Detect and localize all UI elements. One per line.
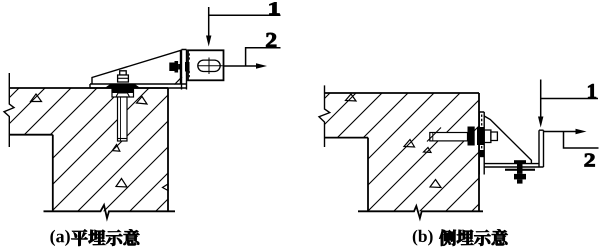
digit 1 (b) [588, 84, 596, 98]
aggregate triangles (a) [31, 94, 169, 191]
bolt at leg (b) [505, 160, 535, 183]
aggregate triangles (b) [346, 94, 442, 188]
horizontal leg (b) [484, 164, 539, 167]
concrete outline (a): right edge [167, 88, 169, 211]
anchor bolt (a): threaded rod [118, 97, 128, 141]
embedded plate (b) black [468, 127, 475, 146]
concrete outline (b): top surface [325, 92, 480, 94]
concrete outline (b): bottom edge with break zigzag [358, 206, 483, 218]
leader 1 (a) [208, 7, 210, 38]
concrete outline (b): step vertical [367, 138, 369, 212]
bracket base plate (a) [90, 84, 187, 88]
hatch concrete (b) [192, 51, 601, 231]
break line left (a) with zigzag [4, 73, 14, 147]
digit 2 (b) [585, 154, 595, 167]
concrete outline (a): bottom edge with break zigzag [44, 205, 176, 218]
wedge gusset plate (a) [92, 51, 181, 85]
anchor rod (b) [430, 133, 468, 141]
hatch concrete (a) [0, 51, 342, 231]
washer nut (b) [484, 130, 491, 143]
caption prefix (a) [50, 230, 69, 246]
digit 1 (a) [269, 2, 279, 14]
anchor bolt (a): embedded cone [112, 89, 134, 97]
hidden lines (b) [481, 115, 483, 151]
face plate (b) [479, 112, 484, 175]
corner gusset diagonal (a) [175, 77, 183, 85]
joint bolt (a) [169, 61, 189, 73]
angle vertical leg (a) [182, 50, 187, 90]
concrete outline (a): step horizontal [9, 134, 53, 136]
digit 2 (a) [266, 33, 276, 47]
caption text 平埋示意 (a) [72, 230, 140, 246]
connection plate (a) [188, 50, 224, 80]
break line left (b) with zigzag [319, 85, 330, 147]
leader 2 (a) [224, 65, 257, 67]
gusset (b) [484, 116, 531, 164]
slot crosshair (a) [198, 58, 223, 75]
concrete outline (a): step vertical [52, 135, 54, 212]
slotted hole (a) [198, 60, 220, 71]
hidden bolt lines (a) [188, 53, 190, 77]
caption prefix (b) [413, 230, 433, 246]
anchor bolt (a): washer (black) [104, 84, 141, 89]
leader 1 (b) [540, 80, 542, 120]
anchor bolt (a): nut stack [120, 71, 127, 75]
hatch line crossing rod end (b) [427, 128, 441, 142]
concrete outline (a): top surface [10, 87, 169, 89]
concrete outline (b): right edge [478, 93, 480, 211]
caption text 侧埋示意 (b) [440, 230, 508, 246]
lip at leg end (b) [539, 130, 544, 167]
concrete outline (b): step horizontal [325, 137, 369, 139]
leader 2 (b) [544, 131, 577, 133]
